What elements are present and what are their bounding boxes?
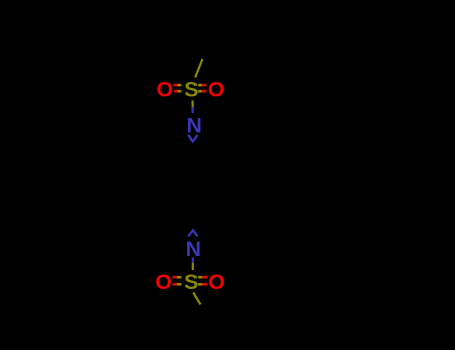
node O (top sulfonyl right oxygen) [208,78,225,102]
node O (top sulfonyl left oxygen) [157,78,174,102]
wire methyl C-S bond (top mesyl) [195,59,202,78]
wire C=N double bond stub (bottom, blue halves forming caret) [188,230,197,236]
wire S-methyl C bond (bottom mesyl) [193,293,200,305]
wire S=O double bond right (bottom) [198,277,207,284]
node O (bottom sulfonyl right oxygen) [208,270,225,294]
svg-text:S: S [184,78,198,102]
svg-text:O: O [208,78,225,102]
node O (bottom sulfonyl left oxygen) [155,270,172,294]
svg-text:O: O [208,270,225,294]
svg-text:O: O [155,270,172,294]
svg-text:N: N [187,113,202,137]
svg-text:N: N [186,237,201,261]
wire O=S double bond left (bottom) [173,277,182,284]
node N (bottom imine nitrogen) [186,237,201,261]
wire S-N bond (top) [192,101,194,114]
wire S=O double bond right (top) [198,85,206,91]
wire N-S bond (bottom) [192,258,194,271]
svg-text:S: S [184,270,198,294]
svg-text:O: O [157,78,174,102]
node S (bottom sulfonyl sulfur) [184,270,198,294]
wire N=C double bond stub (top, blue halves forming V) [188,135,198,142]
node N (top imine nitrogen) [187,113,202,137]
wire O=S double bond left (top) [174,85,182,91]
node S (top sulfonyl sulfur) [184,78,198,102]
